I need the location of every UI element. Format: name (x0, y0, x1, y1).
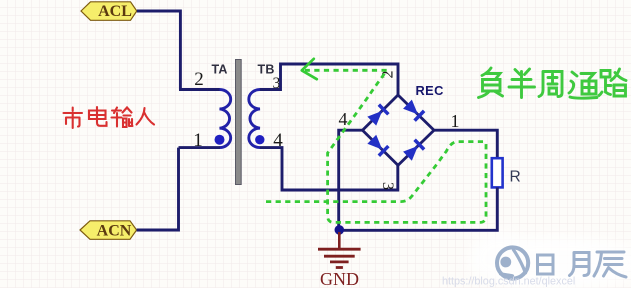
svg-text:3: 3 (379, 182, 396, 190)
svg-text:1: 1 (451, 111, 460, 131)
svg-text:GND: GND (320, 269, 359, 288)
polarity dot TB (255, 135, 264, 144)
日 (538, 255, 554, 274)
diode D-topleft (367, 105, 388, 126)
wire ACN to TA pin 1 (137, 148, 179, 230)
diode D-bottomright (403, 140, 424, 161)
label 市电输入 (64, 107, 155, 128)
svg-text:4: 4 (339, 109, 348, 129)
svg-text:R: R (510, 169, 521, 186)
watermark logo circle (497, 247, 528, 278)
svg-text:ACL: ACL (98, 3, 132, 20)
svg-text:2: 2 (194, 69, 204, 90)
negative half-cycle path (green dashed) (266, 70, 486, 222)
label 负半周通路 (479, 68, 627, 98)
ground GND symbol (318, 232, 361, 268)
bridge rectifier REC body (363, 95, 435, 165)
svg-text:TA: TA (212, 63, 228, 77)
polarity dot TA (215, 135, 225, 145)
月 (570, 253, 590, 276)
transformer TA primary winding (220, 89, 231, 147)
power port ACL (81, 2, 137, 21)
junction node (335, 225, 345, 235)
green path arrowhead (302, 59, 317, 79)
wire ACL to TA pin 2 (137, 11, 181, 90)
transformer core (236, 60, 242, 185)
wire TB pin3 to bridge pin2 (260, 64, 398, 96)
wire bridge pin4 to ground junction (339, 130, 363, 230)
wire TB pin4 to bridge pin3 (260, 148, 398, 190)
辰 (594, 252, 626, 277)
svg-text:ACN: ACN (97, 222, 132, 239)
svg-text:REC: REC (416, 83, 444, 98)
watermark text 日月辰 (538, 252, 627, 277)
diode D-topright (403, 99, 424, 120)
resistor R (492, 158, 503, 187)
power port ACN (80, 221, 137, 240)
transformer TB secondary winding (249, 89, 260, 147)
wire bridge pin1 to resistor R (434, 130, 498, 158)
wire resistor to ground junction (339, 187, 497, 230)
wire TA pin2 stub (179, 88, 220, 91)
diode D-bottomleft (367, 134, 388, 155)
wire TA pin1 stub (179, 146, 221, 149)
svg-text:https://blog.csdn.net/qlexcel: https://blog.csdn.net/qlexcel (442, 276, 575, 288)
